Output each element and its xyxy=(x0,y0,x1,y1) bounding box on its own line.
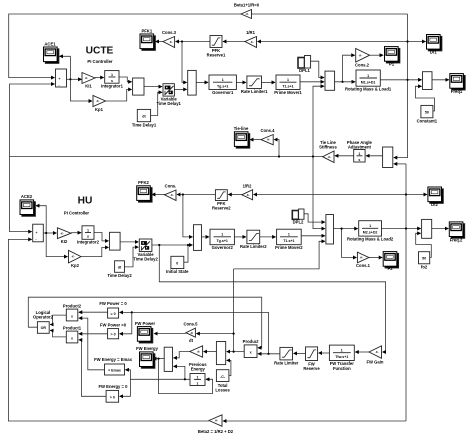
svg-text:= 0: = 0 xyxy=(111,312,116,316)
svg-text:FW Energy: FW Energy xyxy=(136,346,159,351)
svg-text:Time Delay2: Time Delay2 xyxy=(107,273,132,278)
gain Kp2 xyxy=(69,250,82,267)
svg-text:1: 1 xyxy=(87,229,89,233)
svg-text:Beta1+1/R=0: Beta1+1/R=0 xyxy=(234,3,260,8)
svg-text:FW Power: FW Power xyxy=(135,321,156,326)
svg-text:Energy: Energy xyxy=(191,367,206,372)
wire Cons.5 to FW Power scope xyxy=(154,333,186,335)
svg-text:Integrator2: Integrator2 xyxy=(77,239,100,244)
wire Rate Limiter1 to Prime Mover1 xyxy=(262,81,276,83)
transfer function Governor1 xyxy=(209,75,236,95)
svg-text:Prime Mover2: Prime Mover2 xyxy=(275,245,303,250)
rate limiter FW Rate Limiter xyxy=(274,347,299,365)
svg-text:Cons.1: Cons.1 xyxy=(356,263,371,268)
svg-text:Reserve1: Reserve1 xyxy=(207,53,226,58)
wire Integrator2 to mux1h xyxy=(94,233,109,241)
svg-text:Rate Limiter2: Rate Limiter2 xyxy=(240,244,267,249)
svg-text:T1.s+1: T1.s+1 xyxy=(283,239,294,243)
wire Total Losses to sum3b xyxy=(227,360,231,375)
transfer function Rotating Mass and Load1 xyxy=(345,70,392,92)
svg-text:Rotating Mass & Load1: Rotating Mass & Load1 xyxy=(345,87,392,92)
sum block HU sum1 xyxy=(33,224,44,242)
gain Cons.2 xyxy=(355,49,370,68)
wire Df1 scope tap xyxy=(408,41,426,43)
svg-text:Losses: Losses xyxy=(215,388,230,393)
wire branch to Cons.4 xyxy=(274,140,279,157)
svg-text:+: + xyxy=(59,77,61,81)
wire FW Gain to FW Transfer Function xyxy=(355,351,369,353)
svg-text:Tfw.s+1: Tfw.s+1 xyxy=(335,355,348,359)
wire product output up to HU xyxy=(233,269,235,352)
svg-text:-K-: -K- xyxy=(71,255,75,259)
wire tie-line into UCTE sum minus xyxy=(10,84,55,157)
wire Cons.2 to P1 scope xyxy=(370,54,383,56)
sum block UCTE sum2 xyxy=(188,70,197,95)
wire fo2 hook xyxy=(416,233,432,257)
svg-text:-K-: -K- xyxy=(359,53,363,57)
svg-text:dt: dt xyxy=(197,350,200,354)
block Variable Time Delay2 xyxy=(133,239,158,261)
svg-text:PFK1: PFK1 xyxy=(141,29,152,34)
svg-text:Reserve: Reserve xyxy=(303,366,320,371)
svg-text:Product1: Product1 xyxy=(63,325,82,330)
svg-text:FW Energy = 0: FW Energy = 0 xyxy=(99,384,129,389)
mux tie line mux xyxy=(383,147,393,168)
svg-text:-K-: -K- xyxy=(246,193,250,197)
svg-text:1/R2: 1/R2 xyxy=(243,183,253,188)
wire Cons.5 tap xyxy=(196,333,233,335)
wire Kp1 to mux1 xyxy=(106,89,132,101)
svg-text:Freq1: Freq1 xyxy=(451,89,463,94)
svg-text:HU: HU xyxy=(78,195,93,206)
wire previous energy to sum4b xyxy=(174,366,191,379)
wire Rate Limiter to Product xyxy=(258,353,280,355)
scope Freq1 xyxy=(450,74,465,94)
svg-text:-K-: -K- xyxy=(360,256,364,260)
svg-text:Cons.: Cons. xyxy=(165,183,177,188)
wire energy comparators feed xyxy=(126,370,185,380)
product Product2 xyxy=(63,303,82,321)
svg-text:1: 1 xyxy=(288,233,290,237)
svg-text:s: s xyxy=(87,235,89,239)
logical operator OR xyxy=(33,310,54,334)
wire DPL2 to HU mux3 xyxy=(304,214,325,222)
svg-text:DPL1: DPL1 xyxy=(299,68,310,73)
wire Governor1 to Rate Limiter1 xyxy=(236,81,246,83)
block Variable Time Delay1 xyxy=(157,84,182,106)
svg-text:Cons.2: Cons.2 xyxy=(355,63,370,68)
wire Product out to sum3b xyxy=(227,351,245,353)
wire Product1 to OR xyxy=(50,331,66,337)
wire Cons.4 to Tie-line scope xyxy=(250,139,261,141)
wire Rate Limiter2 to Prime Mover2 xyxy=(260,236,276,238)
wire KI2 to Integrator2 xyxy=(71,232,81,234)
svg-text:+: + xyxy=(36,231,38,235)
svg-text:1: 1 xyxy=(367,74,369,78)
wire FW Power comparator 2 feed xyxy=(120,312,132,333)
wire Product2 to OR xyxy=(50,315,66,324)
comparator FW Energy = 0 xyxy=(99,384,129,402)
rate limiter Rate Limiter1 xyxy=(241,76,268,94)
wire FW Transfer Function to FW Reserve xyxy=(319,352,330,354)
wire to Kp2 xyxy=(46,233,67,257)
saturation PFK Reserve2 xyxy=(212,190,231,211)
wire Rotating Mass 1 to frequency sum xyxy=(380,79,421,81)
comparator FW Power = 0 xyxy=(99,301,127,318)
gain Cons.1 xyxy=(356,252,371,268)
wire Prime Mover1 to mux3 xyxy=(300,81,324,83)
svg-text:1/R1: 1/R1 xyxy=(246,30,256,35)
svg-text:KI1: KI1 xyxy=(85,84,92,89)
svg-text:Tie-line: Tie-line xyxy=(234,126,249,131)
wire frequency sum 2 to Freq.2 xyxy=(432,228,449,230)
wire energy zero comparator to Product1 xyxy=(79,340,106,396)
svg-text:KI2: KI2 xyxy=(61,239,68,244)
svg-text:ACE1: ACE1 xyxy=(44,42,56,47)
svg-text:Freq.2: Freq.2 xyxy=(450,237,463,242)
wire sum2 to Governor1 xyxy=(196,81,208,83)
svg-text:dt: dt xyxy=(189,338,194,343)
svg-text:Df1: Df1 xyxy=(430,50,437,55)
scope ACE2 xyxy=(20,194,35,216)
svg-text:Tg.s+1: Tg.s+1 xyxy=(216,239,228,243)
gain Cons. HU xyxy=(165,183,177,200)
svg-text:Cons.4: Cons.4 xyxy=(261,128,276,133)
svg-text:Product2: Product2 xyxy=(63,303,82,308)
saturation PFK Reserve1 xyxy=(207,36,226,58)
integrator Phase Angle Adjustment xyxy=(347,140,373,162)
svg-text:50: 50 xyxy=(422,257,426,261)
svg-text:Beta2 = 1/R2 + D2: Beta2 = 1/R2 + D2 xyxy=(198,429,234,434)
wire ACE1 tap xyxy=(60,56,71,79)
wire Variable Time Delay1 to sum2 xyxy=(174,88,186,90)
sum block frequency sum1 xyxy=(423,72,433,90)
svg-text:Operator2: Operator2 xyxy=(33,314,54,319)
svg-text:PI Controller: PI Controller xyxy=(87,59,112,64)
wire tie mux out to Phase Angle Adjustment xyxy=(366,155,383,157)
svg-text:-K-: -K- xyxy=(215,419,219,423)
svg-text:UCTE: UCTE xyxy=(86,45,114,56)
svg-text:> 0: > 0 xyxy=(111,333,116,337)
scope PFK2 xyxy=(137,180,152,202)
transfer function Prime Mover2 xyxy=(275,229,303,250)
svg-text:0: 0 xyxy=(176,261,178,265)
svg-text:-K-: -K- xyxy=(96,99,100,103)
svg-text:M1.s+D1: M1.s+D1 xyxy=(361,80,376,84)
svg-text:OR: OR xyxy=(41,326,47,330)
svg-text:s: s xyxy=(111,79,113,83)
svg-text:Rotating Mass & Load2: Rotating Mass & Load2 xyxy=(347,237,394,242)
svg-text:-K-: -K- xyxy=(267,138,271,142)
svg-text:Adjustment: Adjustment xyxy=(348,145,372,150)
wire branch down to Cons.1 xyxy=(342,229,357,258)
wire tie branch down to HU mux3 xyxy=(313,157,325,229)
constant Total Losses xyxy=(215,370,230,393)
svg-text:fo2: fo2 xyxy=(421,264,428,269)
svg-text:Tg.s+1: Tg.s+1 xyxy=(217,84,229,88)
svg-text:PFK2: PFK2 xyxy=(138,180,149,185)
gain value marks inside triangles xyxy=(60,12,379,423)
wire ACE2 tap xyxy=(36,206,46,233)
wire sum3b to dt gain xyxy=(204,351,217,353)
wire Kp2 to mux1h xyxy=(81,247,109,256)
svg-text:1: 1 xyxy=(197,375,199,379)
svg-text:x: x xyxy=(250,351,252,355)
svg-text:FW Power = 0: FW Power = 0 xyxy=(99,301,127,306)
gain KI2 xyxy=(57,228,71,244)
wire flywheel power up to HU mux3 xyxy=(234,241,325,269)
svg-text:DPL2: DPL2 xyxy=(293,219,304,224)
gain dt energy xyxy=(190,346,203,357)
wire 1/R2 line xyxy=(254,194,406,196)
svg-text:Df2: Df2 xyxy=(431,202,438,207)
svg-text:-K-: -K- xyxy=(375,350,379,354)
wire Df2 vertical bus xyxy=(405,164,407,421)
gain Tie Line Stiffness xyxy=(319,140,337,163)
svg-text:1: 1 xyxy=(221,233,223,237)
wire governor tap down to flywheel gain xyxy=(159,245,385,352)
wire tie-line branch up to mux3 xyxy=(313,86,324,156)
wire to Kp1 xyxy=(70,79,92,101)
svg-text:x: x xyxy=(71,314,73,318)
block Time Delay2 xyxy=(107,261,132,278)
block DPL2 xyxy=(292,209,304,224)
integrator Integrator2 xyxy=(77,226,100,245)
svg-text:Integrator1: Integrator1 xyxy=(101,84,124,89)
integrator Integrator1 xyxy=(101,71,124,89)
svg-text:T1.s+1: T1.s+1 xyxy=(282,84,293,88)
svg-text:1: 1 xyxy=(222,78,224,82)
svg-text:Constant1: Constant1 xyxy=(417,118,438,123)
wire KI1 to Integrator1 xyxy=(95,77,104,79)
wire dt gain to sum4b xyxy=(174,352,190,358)
wire sum1h out to KI2 xyxy=(43,232,56,234)
svg-text:Reserve2: Reserve2 xyxy=(212,206,231,211)
wire tie line long feedback xyxy=(10,156,323,158)
svg-text:FW Energy = Emax: FW Energy = Emax xyxy=(94,357,132,362)
gain 1/R2 xyxy=(242,183,253,200)
wire Phase Angle Adjustment to Tie Line Stiffness xyxy=(335,155,354,157)
gain Kp1 xyxy=(93,96,106,113)
block Time Delay1 xyxy=(132,109,157,127)
mux mux3 UCTE xyxy=(325,71,335,90)
scope Freq.2 xyxy=(449,222,464,242)
svg-text:-C-: -C- xyxy=(220,375,226,379)
svg-text:Rate Limiter1: Rate Limiter1 xyxy=(241,89,268,94)
svg-text:Time Delay2: Time Delay2 xyxy=(133,256,158,261)
mux mux1 HU xyxy=(110,232,121,250)
wire branch up to Cons.2 xyxy=(343,55,355,82)
svg-text:> 0: > 0 xyxy=(110,396,115,400)
scope PFK1 xyxy=(140,29,155,51)
svg-text:-K-: -K- xyxy=(250,40,254,44)
wire OR output loop to Product xyxy=(28,297,261,348)
scope FW Energy xyxy=(136,346,159,368)
gain Beta1 feedback xyxy=(234,3,260,19)
svg-text:50: 50 xyxy=(425,111,429,115)
svg-text:1: 1 xyxy=(369,224,371,228)
constant Constant1 xyxy=(417,105,438,123)
scope Df1 xyxy=(427,35,442,55)
svg-text:-: - xyxy=(36,237,37,241)
svg-text:M2.s+D2: M2.s+D2 xyxy=(363,231,378,235)
svg-text:Cons.5: Cons.5 xyxy=(184,321,199,326)
svg-text:-K-: -K- xyxy=(60,231,64,235)
wire sum1 output to KI1 xyxy=(67,78,82,80)
svg-text:dt: dt xyxy=(191,331,194,335)
svg-text:Governor2: Governor2 xyxy=(212,245,234,250)
svg-text:-K-: -K- xyxy=(328,155,332,159)
svg-text:1: 1 xyxy=(287,78,289,82)
svg-text:Rate Limiter: Rate Limiter xyxy=(274,361,299,366)
svg-text:Function: Function xyxy=(333,366,351,371)
gain FW Gain xyxy=(367,346,384,365)
scope P1 xyxy=(385,47,400,67)
svg-text:PI Controller: PI Controller xyxy=(64,210,89,215)
wire comparator feed line xyxy=(120,312,269,353)
svg-text:Cons.3: Cons.3 xyxy=(162,30,177,35)
svg-text:ACE2: ACE2 xyxy=(21,194,33,199)
svg-text:1: 1 xyxy=(358,152,360,156)
wire Rotating Mass 2 to frequency sum 2 xyxy=(382,228,421,230)
wire frequency sum to Freq1 xyxy=(432,79,449,81)
svg-text:-K-: -K- xyxy=(169,40,173,44)
svg-text:P1: P1 xyxy=(389,61,395,66)
wire comparator =0 to Product2 xyxy=(79,311,108,313)
wire Variable Time Delay2 to sum2h xyxy=(152,244,193,246)
sum block UCTE sum1 xyxy=(56,69,67,87)
wire DPL1 to mux3 xyxy=(311,61,324,77)
constant Initial State xyxy=(166,256,189,274)
sum block frequency sum2 xyxy=(422,219,432,238)
gain KI1 xyxy=(82,73,95,89)
wire HU mux3 to Rotating Mass 2 xyxy=(334,228,358,230)
transfer function Rotating Mass and Load2 xyxy=(347,221,394,242)
sum block HU sum2 xyxy=(194,225,202,251)
wire tie mux in2 xyxy=(394,163,406,165)
wire Cons.1 to P2 xyxy=(369,257,382,259)
wire mux3 to Rotating Mass 1 xyxy=(335,81,355,83)
gain Cons.4 xyxy=(261,128,276,145)
transfer function FW Transfer Function xyxy=(329,345,354,371)
scope FW Power xyxy=(135,321,156,343)
wire Constant1 hook xyxy=(416,86,435,111)
svg-text:FW Gain: FW Gain xyxy=(367,359,384,364)
wire tie-line into HU sum plus xyxy=(10,157,32,232)
svg-text:Product: Product xyxy=(243,339,259,344)
svg-text:Stiffness: Stiffness xyxy=(319,145,337,150)
wire Initial State join xyxy=(184,245,188,262)
scope ACE1 xyxy=(44,42,59,64)
wire Df2 scope tap xyxy=(406,194,427,196)
svg-text:-: - xyxy=(59,83,60,87)
scope Df2 xyxy=(428,187,443,207)
wire Emax comparator to Product2 xyxy=(79,318,105,370)
wire Integrator1 to mux1 xyxy=(119,77,132,82)
wire Df1 vertical bus xyxy=(394,14,408,158)
svg-text:Initial State: Initial State xyxy=(166,269,189,274)
wire 1/R1 line from node to PFK chain xyxy=(258,41,408,43)
constant fo2 xyxy=(419,252,430,270)
svg-text:Prime Mover1: Prime Mover1 xyxy=(274,90,302,95)
svg-text:Kp2: Kp2 xyxy=(71,263,80,268)
wire energy loop to previous energy xyxy=(159,359,213,394)
svg-text:P2: P2 xyxy=(387,266,393,271)
unit delay Previous Energy xyxy=(189,362,207,386)
svg-text:x: x xyxy=(71,336,73,340)
svg-text:-K-: -K- xyxy=(245,12,249,16)
wire sum4b out to FW Energy scope xyxy=(153,358,164,360)
saturation FW Reserve xyxy=(303,347,320,371)
svg-text:Time Delay1: Time Delay1 xyxy=(157,101,182,106)
svg-text:= Emax: = Emax xyxy=(108,369,121,373)
wire mux1 to Variable Time Delay1 xyxy=(144,86,162,88)
comparator FW Energy = Emax xyxy=(94,357,132,375)
wire Governor2 to Rate Limiter2 xyxy=(234,236,246,238)
wire drop to sum2 plus input xyxy=(182,42,187,83)
wire FW Reserve to Rate Limiter xyxy=(294,352,306,354)
wire Time Delay1 to Variable Time Delay1 xyxy=(151,92,162,115)
svg-text:s: s xyxy=(358,158,360,162)
svg-text:Kp1: Kp1 xyxy=(95,107,104,112)
svg-text:z: z xyxy=(197,381,199,385)
transfer function Prime Mover1 xyxy=(274,75,302,95)
wire Beta2 bottom feedback xyxy=(223,420,406,422)
wire Prime Mover2 to HU mux3 xyxy=(301,235,325,237)
product Product FW xyxy=(243,339,259,358)
svg-text:-K-: -K- xyxy=(170,193,174,197)
product Product1 xyxy=(63,325,82,343)
svg-text:1: 1 xyxy=(111,73,113,77)
wire mux1h to Variable Time Delay2 xyxy=(120,241,138,243)
gain Beta2 feedback xyxy=(198,415,234,434)
block DPL1 xyxy=(298,56,311,74)
transfer function Governor2 xyxy=(210,229,234,250)
sum block energy sum4b xyxy=(164,347,172,371)
svg-text:-K-: -K- xyxy=(85,76,89,80)
rate limiter Rate Limiter2 xyxy=(240,230,267,249)
wire Time Delay2 to Variable Time Delay2 xyxy=(125,247,139,267)
svg-text:FW Power >0: FW Power >0 xyxy=(100,322,127,327)
scope P2 xyxy=(383,252,398,271)
wire comparator >0 to Product1 xyxy=(79,333,108,335)
mux mux3 HU xyxy=(326,215,334,245)
svg-text:Governor1: Governor1 xyxy=(212,90,234,95)
wire Beta1 feedback top loop xyxy=(252,13,408,15)
svg-text:1: 1 xyxy=(341,349,343,353)
svg-text:Time Delay1: Time Delay1 xyxy=(132,123,157,128)
wire sum2h to Governor2 xyxy=(202,236,210,238)
mux mux1 UCTE xyxy=(133,78,144,95)
wire drop to sum2h input xyxy=(183,195,193,237)
gain Cons.3 xyxy=(162,30,177,48)
gain 1/R1 xyxy=(245,30,257,48)
sum block power sum3b xyxy=(216,342,225,365)
comparator FW Power greater 0 xyxy=(100,322,127,339)
gain Cons.5 xyxy=(184,321,199,343)
scope Tie-line xyxy=(234,126,250,148)
